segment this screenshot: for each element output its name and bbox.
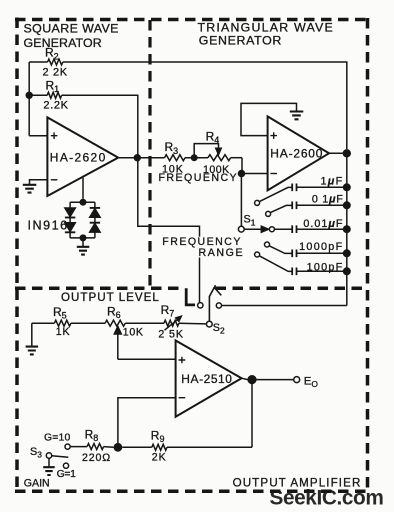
svg-text:SQUARE WAVE: SQUARE WAVE <box>24 22 119 36</box>
wire: C4 to bus <box>297 252 347 254</box>
node: diode clamp top <box>80 199 87 206</box>
svg-text:GENERATOR: GENERATOR <box>199 33 282 47</box>
diode D1 (left upper, pointing down) <box>65 208 75 218</box>
op-amp U1 HA-2620 triangle <box>47 117 118 196</box>
wire: contact 4 to C4 <box>269 246 292 254</box>
wire: C1 to bus <box>297 186 347 188</box>
value 2.5K for R7 <box>158 329 183 341</box>
watermark SeekIC.com <box>270 486 384 509</box>
resistor R2 with leads <box>29 59 63 65</box>
value 10K for R3 <box>162 163 184 175</box>
label S1 <box>244 214 256 228</box>
diode D3 (right upper, pointing up) <box>90 208 100 217</box>
capacitor C2 0.1uF <box>292 202 296 210</box>
switch S1 wiper arm with arrow <box>244 226 268 232</box>
svg-text:2 5K: 2 5K <box>158 329 183 341</box>
value 0.01uF <box>303 218 343 230</box>
wire: R4 wiper tied to left terminal <box>194 144 221 158</box>
node: diode clamp bottom <box>80 234 87 241</box>
switch S1 contact 1 <box>255 200 260 205</box>
label R6 <box>107 305 121 321</box>
section border: outer top edge <box>15 18 368 22</box>
node: R8/R9 summing junction <box>114 443 123 452</box>
value 0.1uF <box>312 193 344 205</box>
wire: feedback from output to R9 <box>251 380 253 448</box>
label HA-2510 <box>181 372 232 386</box>
switch S2 throw B (triangle wave) <box>216 303 221 308</box>
wire: R5 left end to ground <box>31 323 33 346</box>
wire: R4 to U2 inverting input <box>241 158 243 174</box>
resistor R1 with leads <box>29 92 138 157</box>
svg-text:1K: 1K <box>56 326 71 338</box>
wire: R6 to R7 <box>125 322 164 324</box>
value 100K for R4 <box>203 164 230 176</box>
label: OUTPUT AMPLIFIER <box>233 476 362 489</box>
svg-text:220Ω: 220Ω <box>82 452 111 464</box>
node: C3 bus junction <box>343 225 351 233</box>
label GAIN <box>24 477 50 489</box>
potentiometer R7 <box>164 320 179 326</box>
node: U2 inverting input junction <box>238 170 246 178</box>
wire: diode clamp to ground <box>82 238 84 247</box>
label G=1 <box>57 469 77 480</box>
svg-text:2 2K: 2 2K <box>43 66 68 78</box>
svg-text:GAIN: GAIN <box>24 477 50 489</box>
switch S3 wiper arm <box>52 456 69 457</box>
svg-text:G=1: G=1 <box>57 469 77 480</box>
wire: diode clamp left branch <box>69 202 71 238</box>
wire: contact 3 to C3 <box>274 228 292 230</box>
svg-text:RANGE: RANGE <box>199 247 245 259</box>
node: junction of R1/R2 and + input rail <box>26 92 33 99</box>
resistor R5 <box>32 320 71 326</box>
wire: stem from U1 output edge to diode clamp <box>82 178 84 199</box>
label HA-2620 <box>50 151 107 165</box>
wire: diode clamp bottom bar <box>70 237 95 239</box>
terminal Eo <box>294 377 300 383</box>
node: R3-R4 junction <box>191 154 198 161</box>
label R9 <box>151 428 165 444</box>
node: U3 output junction <box>247 375 256 384</box>
wire: - input of U2 <box>242 173 268 175</box>
wire: diode clamp top bar <box>70 201 95 203</box>
wire: contact 5 to C5 <box>259 256 292 272</box>
wire: feedback from triangular output bus to R2 <box>63 62 347 149</box>
switch S1 contact 2 <box>266 211 271 216</box>
ground at U2 + input <box>290 112 304 120</box>
wire: integrator node down to S1 wiper <box>240 174 242 227</box>
value 2.2K for R1 <box>43 100 68 112</box>
svg-text:1μF: 1μF <box>320 175 343 187</box>
wire: capacitor bus vertical <box>346 153 348 305</box>
label R1 <box>46 79 60 95</box>
value 2.2K for R2 <box>43 66 68 78</box>
label R3 <box>165 140 179 156</box>
wire: + input of U2 to ground loop <box>241 103 297 135</box>
switch S3 contact G=1 <box>63 463 68 468</box>
svg-text:HA-2600: HA-2600 <box>270 147 323 161</box>
value 100pF <box>307 261 344 273</box>
switch S1 contact 5 <box>255 252 260 257</box>
ground at R5 <box>26 347 38 355</box>
svg-text:1000pF: 1000pF <box>299 241 343 253</box>
section border: outer left edge <box>15 18 19 492</box>
op-amp U3 + input symbol <box>179 357 186 364</box>
wire: left input rail <box>28 62 30 136</box>
op-amp U1 - input symbol <box>51 179 58 181</box>
wire: S2 throw B to capacitor bus <box>222 305 347 307</box>
node: C1 bus junction <box>343 183 351 191</box>
diode D2 (left lower, pointing down) <box>65 223 75 233</box>
label: OUTPUT LEVEL <box>61 291 160 304</box>
switch S2 wiper arm barb <box>214 287 222 295</box>
section border: jog around switch S2 <box>186 288 195 305</box>
svg-text:OUTPUT LEVEL: OUTPUT LEVEL <box>61 291 160 304</box>
label IN916 <box>28 219 69 233</box>
wire: R7 to S2 pole <box>179 322 207 325</box>
svg-text:0 1μF: 0 1μF <box>312 193 344 205</box>
resistor R9 <box>122 444 252 450</box>
wire: diode clamp right branch <box>94 202 96 238</box>
label R5 <box>53 305 67 321</box>
capacitor C5 100pF <box>292 268 296 276</box>
svg-text:IN916: IN916 <box>28 219 69 233</box>
switch S1 wiper contact <box>238 226 244 232</box>
value 1000pF <box>299 241 343 253</box>
svg-text:2K: 2K <box>152 451 167 463</box>
section border: vertical divider between generators <box>148 20 151 288</box>
wire: S3 pole to ground <box>48 458 50 467</box>
capacitor C4 1000pF <box>292 250 296 258</box>
potentiometer R4 <box>208 155 242 161</box>
wire: R6 wiper to U3 + input <box>118 358 176 360</box>
wire: + input of U1 <box>29 135 47 137</box>
diode D4 (right lower, pointing up) <box>90 223 100 232</box>
switch S3 contact G=10 <box>65 444 70 449</box>
label FREQUENCY (dial) <box>159 172 239 184</box>
label R8 <box>85 428 99 444</box>
value 2K for R9 <box>152 451 167 463</box>
wire: U3 output <box>242 378 294 379</box>
value 10K for R6 <box>123 326 144 338</box>
label: SQUARE WAVE GENERATOR title <box>24 22 119 50</box>
section border: outer bottom edge <box>15 490 368 494</box>
label R7 <box>161 303 175 319</box>
node: C2 bus junction <box>343 201 351 209</box>
resistor R8 <box>70 444 113 450</box>
node: U1 output junction <box>134 154 141 161</box>
op-amp U3 HA-2510 triangle <box>176 341 242 417</box>
op-amp U2 - input symbol <box>270 173 277 175</box>
label: TRIANGULAR WAVE GENERATOR title <box>198 20 334 47</box>
svg-text:G=10: G=10 <box>44 432 71 443</box>
wire: C5 to bus <box>297 270 347 272</box>
op-amp U1 + input symbol <box>51 132 58 139</box>
switch S3 pole contact <box>46 453 51 458</box>
wire: - input of U1 to ground <box>30 180 48 185</box>
svg-text:HA-2510: HA-2510 <box>181 372 232 386</box>
label Eo <box>304 375 319 389</box>
wire: R5 to R6 <box>71 322 105 324</box>
switch S2 throw A (square wave) <box>198 303 203 308</box>
op-amp U3 - input symbol <box>179 397 186 399</box>
ground at diode clamp <box>77 247 90 255</box>
label HA-2600 <box>270 147 323 161</box>
wire: contact 2 to C2 <box>270 205 292 212</box>
svg-text:OUTPUT AMPLIFIER: OUTPUT AMPLIFIER <box>233 476 362 489</box>
ground at U1 - input <box>23 185 37 193</box>
svg-text:TRIANGULAR WAVE: TRIANGULAR WAVE <box>198 20 334 34</box>
switch S2 pole contact <box>206 321 212 327</box>
resistor R3 <box>165 155 209 161</box>
svg-text:0.01μF: 0.01μF <box>303 218 343 230</box>
node: C5 bus junction <box>343 267 351 275</box>
svg-text:2.2K: 2.2K <box>43 100 68 112</box>
value 220 ohm for R8 <box>82 452 111 464</box>
label G=10 <box>44 432 71 443</box>
label FREQUENCY RANGE <box>162 236 244 259</box>
capacitor C3 0.01uF <box>292 225 296 233</box>
section border: outer right edge <box>366 18 370 491</box>
switch S2 wiper arm <box>209 285 215 321</box>
section border: horizontal divider left of S2 <box>15 287 185 291</box>
label R2 <box>45 46 59 62</box>
wire: U1 output <box>118 157 164 159</box>
wire: square wave to switch S2 <box>138 158 200 303</box>
switch S1 contact 4 <box>265 242 270 247</box>
label S2 <box>213 322 225 336</box>
svg-text:100pF: 100pF <box>307 261 344 273</box>
wire: contact 1 to C1 <box>259 187 292 201</box>
op-amp U2 + input symbol <box>270 132 277 139</box>
switch S1 contact 3 (selected) <box>269 227 274 232</box>
svg-text:HA-2620: HA-2620 <box>50 151 107 165</box>
value 1uF <box>320 175 343 187</box>
section border: horizontal divider right of S2 <box>216 287 368 291</box>
wire: C2 to bus <box>297 204 347 206</box>
ground at S3 <box>43 467 55 475</box>
node: C4 bus junction <box>343 249 351 257</box>
svg-text:10K: 10K <box>123 326 144 338</box>
label S3 <box>30 446 42 460</box>
label R4 <box>206 129 220 145</box>
wire: C3 to bus <box>297 228 347 230</box>
op-amp U2 HA-2600 triangle <box>268 116 329 190</box>
potentiometer R7 wiper arrow <box>165 316 182 330</box>
potentiometer R6 wiper arrow <box>114 326 121 359</box>
node: U2 output junction with feedback bus <box>343 149 351 157</box>
potentiometer R6 <box>105 320 125 326</box>
value 1K for R5 <box>56 326 71 338</box>
svg-text:GENERATOR: GENERATOR <box>24 36 102 50</box>
wire: U2 output <box>329 152 347 154</box>
wire: U3 - input to R8/R9 node <box>118 398 176 444</box>
capacitor C1 1uF <box>292 184 296 192</box>
svg-text:100K: 100K <box>203 164 230 176</box>
